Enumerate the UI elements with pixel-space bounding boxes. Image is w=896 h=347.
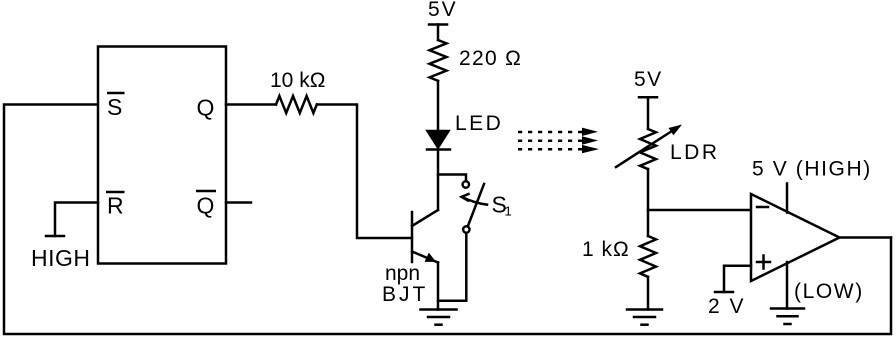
2V terminal bar — [715, 291, 733, 294]
svg-text:(LOW): (LOW) — [794, 280, 864, 303]
svg-text:LDR: LDR — [670, 141, 720, 164]
LDR arrow — [616, 131, 672, 167]
wire 5V to LDR — [647, 97, 650, 129]
switch S1 bottom contact — [463, 226, 469, 232]
light ray dashed arrow 2 — [518, 139, 582, 142]
svg-text:HIGH: HIGH — [31, 245, 91, 271]
svg-text:10 kΩ: 10 kΩ — [270, 69, 325, 92]
SR latch U1 — [98, 47, 226, 264]
wire resistor to LED anode — [437, 81, 440, 131]
op-amp positive supply pin — [786, 184, 789, 213]
wire LDR to junction — [647, 169, 650, 236]
wire switch bottom to emitter — [438, 233, 466, 301]
wire resistor to BJT base — [317, 105, 412, 239]
wire Q output to resistor — [226, 103, 276, 106]
wire 5V to resistor — [437, 25, 440, 41]
wire emitter to ground — [437, 263, 440, 310]
ground (LDR branch) — [627, 308, 662, 311]
svg-text:5 V (HIGH): 5 V (HIGH) — [752, 158, 872, 181]
svg-text:5V: 5V — [634, 68, 663, 91]
switch S1 actuation arrow — [462, 197, 487, 205]
svg-text:npn: npn — [385, 262, 420, 285]
ground (BJT emitter) — [421, 308, 457, 311]
svg-text:S: S — [107, 94, 122, 120]
transistor Q1 emitter — [412, 252, 438, 263]
HIGH terminal bar — [46, 235, 64, 238]
wire junction to op-amp inverting input — [648, 209, 751, 212]
svg-text:Q: Q — [197, 193, 215, 219]
ground (op-amp) — [771, 307, 804, 310]
wire plus input to 2V terminal — [724, 266, 751, 292]
svg-text:LED: LED — [455, 112, 503, 135]
switch S1 top contact — [463, 181, 469, 187]
wire resistor to ground — [647, 277, 650, 310]
svg-text:BJT: BJT — [382, 283, 428, 306]
svg-text:R: R — [107, 193, 124, 219]
resistor R3 1 kOhm — [640, 236, 656, 277]
transistor Q1 emitter arrow — [425, 253, 437, 262]
op-amp U2 triangle — [751, 194, 840, 281]
power terminal 5V (LDR branch) — [639, 96, 657, 99]
op-amp negative supply pin — [786, 262, 789, 309]
resistor R2 220 Ohm — [430, 40, 447, 81]
LDR resistor body — [640, 129, 656, 169]
wire Q-bar stub — [226, 201, 251, 204]
power terminal 5V (LED branch) — [429, 23, 447, 26]
svg-text:220 Ω: 220 Ω — [459, 47, 522, 70]
op-amp plus sign — [757, 261, 770, 264]
op-amp minus sign — [757, 206, 768, 209]
light ray dashed arrow 1 — [518, 131, 582, 134]
wire op-amp output — [840, 236, 892, 239]
resistor R1 10 kOhm — [276, 96, 317, 113]
light ray dashed arrow 3 — [518, 148, 582, 151]
svg-text:1: 1 — [505, 204, 512, 219]
wire feedback loop from op-amp output to S input — [4, 105, 891, 335]
wire collector branch to switch top — [438, 175, 466, 182]
transistor Q1 base bar — [411, 212, 414, 262]
wire R input stub — [55, 203, 98, 237]
svg-text:2 V: 2 V — [708, 295, 746, 318]
svg-text:Q: Q — [197, 95, 215, 121]
svg-text:1 kΩ: 1 kΩ — [582, 238, 630, 261]
transistor Q1 collector — [412, 210, 438, 226]
switch S1 blade — [468, 184, 484, 225]
svg-text:5V: 5V — [428, 0, 458, 21]
wire LED cathode to collector — [437, 150, 440, 211]
LED D1 — [428, 131, 449, 148]
